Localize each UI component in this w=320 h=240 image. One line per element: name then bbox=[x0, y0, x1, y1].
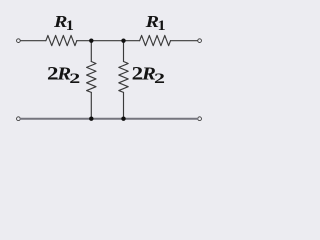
resistor 2R2 right zigzag bbox=[119, 62, 128, 93]
resistor 2R2 left zigzag bbox=[87, 62, 96, 93]
wire top-left lead bbox=[21, 40, 46, 42]
label 2R2 right bbox=[132, 64, 165, 87]
wire bottom bbox=[21, 118, 198, 120]
terminal top-left bbox=[17, 39, 21, 43]
junction dot top-left node bbox=[89, 38, 93, 42]
terminal bottom-left bbox=[17, 117, 21, 121]
terminal bottom-right bbox=[198, 117, 202, 121]
junction dot bottom-left node bbox=[89, 117, 93, 121]
terminal top-right bbox=[198, 39, 202, 43]
wire 2R2-right lower lead bbox=[123, 92, 125, 118]
resistor R1 left zigzag bbox=[46, 35, 77, 45]
wire 2R2-right upper lead bbox=[123, 41, 125, 62]
wire 2R2-left lower lead bbox=[90, 92, 92, 118]
wire 2R2-left upper lead bbox=[90, 41, 92, 62]
svg-text:1: 1 bbox=[158, 18, 166, 34]
svg-text:2: 2 bbox=[154, 71, 165, 87]
label R1 left bbox=[53, 12, 74, 34]
svg-text:1: 1 bbox=[66, 18, 74, 34]
junction dot top-right node bbox=[121, 38, 125, 42]
junction dot bottom-right node bbox=[121, 117, 125, 121]
label R1 right bbox=[145, 12, 166, 34]
wire top-right lead bbox=[171, 40, 198, 42]
svg-text:2: 2 bbox=[69, 71, 80, 87]
label 2R2 left bbox=[47, 64, 80, 87]
resistor R1 right zigzag bbox=[140, 35, 171, 45]
wire top-middle bbox=[77, 40, 140, 42]
